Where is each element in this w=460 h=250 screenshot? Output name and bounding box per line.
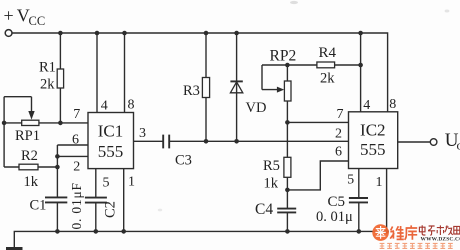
svg-text:R5: R5 [263,158,280,174]
svg-text:2k: 2k [320,71,335,87]
svg-text:VD: VD [246,100,267,116]
svg-text:C5: C5 [328,194,346,210]
svg-text:8: 8 [389,97,396,112]
svg-text:IC2: IC2 [360,121,386,140]
svg-text:555: 555 [98,142,124,161]
svg-text:CC: CC [29,14,46,28]
svg-text:C4: C4 [255,201,273,218]
svg-text:7: 7 [337,107,344,122]
svg-text:R1: R1 [39,60,56,76]
svg-text:C1: C1 [30,198,47,214]
svg-text:6: 6 [335,145,342,160]
svg-text:IC1: IC1 [98,121,124,140]
svg-text:+: + [4,5,14,25]
svg-text:RP1: RP1 [15,128,40,144]
svg-text:2: 2 [335,126,342,141]
svg-text:0. 01μ: 0. 01μ [316,209,353,225]
svg-text:4: 4 [101,98,108,113]
svg-text:C2: C2 [103,201,119,218]
svg-text:1: 1 [376,175,383,190]
svg-text:555: 555 [360,140,386,159]
svg-text:WWW.DZSC.COM: WWW.DZSC.COM [421,236,460,242]
svg-text:2k: 2k [40,77,55,93]
svg-text:0. 01μF: 0. 01μF [69,182,84,229]
svg-text:o: o [457,138,460,153]
svg-text:1: 1 [128,174,135,189]
svg-text:4: 4 [363,98,370,113]
svg-text:RP2: RP2 [270,48,297,65]
svg-text:8: 8 [128,97,135,112]
svg-text:6: 6 [72,132,79,147]
svg-text:3: 3 [139,126,146,141]
svg-text:R3: R3 [183,83,200,99]
svg-text:1k: 1k [264,176,279,192]
svg-text:7: 7 [73,107,80,122]
svg-text:2: 2 [73,159,80,174]
svg-text:1k: 1k [24,174,39,190]
svg-text:R2: R2 [21,148,38,164]
svg-text:C3: C3 [175,153,192,169]
svg-text:5: 5 [103,175,110,190]
svg-text:R4: R4 [319,45,337,61]
svg-text:5: 5 [347,173,354,188]
